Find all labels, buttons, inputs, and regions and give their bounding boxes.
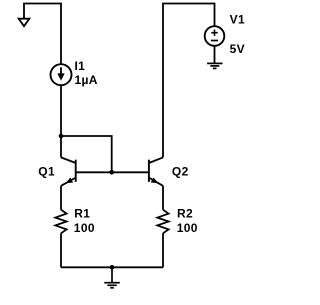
node A (junction: I1 / Q1 collector / base feed) [59,134,64,139]
svg-text:I1: I1 [75,59,86,73]
svg-text:R1: R1 [74,206,90,220]
wire: bottom ground rail [61,266,163,268]
svg-text:100: 100 [177,221,198,235]
wire: V1 to ground [214,46,216,64]
resistor R2 [157,210,168,234]
wire: top-left ground to I1 [24,4,61,65]
svg-text:1µA: 1µA [75,73,98,87]
svg-text:V1: V1 [230,13,245,27]
node B (junction on base rail) [109,170,114,175]
wire: node A to node B (collector-base tie) [61,136,112,172]
wire: R1 bottom to ground rail [60,233,62,267]
svg-text:R2: R2 [177,206,193,220]
ground (bottom center, earth) [104,267,120,288]
node C (bottom rail junction) [110,265,115,270]
resistor R1 [55,210,66,234]
svg-text:Q1: Q1 [38,164,55,178]
voltage source V1 [205,26,225,46]
wire: R2 bottom to ground rail [162,233,164,267]
wire: Q2 collector to V1 [163,4,215,158]
wire: node A down to Q1 collector [60,136,62,157]
ground (top-left, pointer style) [19,19,30,27]
svg-text:5V: 5V [230,42,245,56]
transistor Q1 (NPN, mirrored) [61,157,76,185]
current source I1 [51,64,72,85]
wire: Q2 emitter to R2 [162,186,164,210]
wire: Q1 emitter to R1 [60,186,62,210]
transistor Q2 (NPN) [149,157,163,185]
wire: base rail Q1 base to Q2 base [76,171,149,173]
wire: I1 bottom to node A [60,85,62,136]
svg-text:Q2: Q2 [172,164,189,178]
svg-text:100: 100 [74,221,95,235]
ground (below V1, earth) [207,63,222,68]
